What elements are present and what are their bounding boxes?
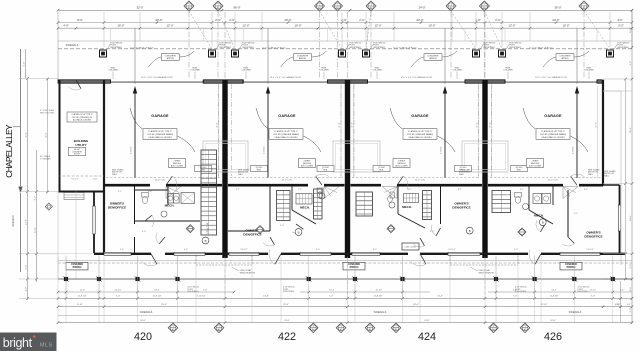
unit 426 toilet bbox=[515, 193, 522, 198]
svg-text:6'-2": 6'-2" bbox=[373, 249, 377, 251]
svg-text:22'-10": 22'-10" bbox=[541, 304, 548, 306]
svg-text:7'-0": 7'-0" bbox=[203, 290, 207, 292]
svg-text:2'-0": 2'-0" bbox=[617, 304, 621, 306]
unit 426 stairs bbox=[492, 191, 511, 213]
unit 422 circled letter bbox=[295, 229, 302, 236]
svg-text:6'-0": 6'-0" bbox=[630, 61, 632, 66]
svg-text:20'-0": 20'-0" bbox=[552, 18, 559, 22]
left dim top drop bbox=[25, 49, 27, 78]
unit 422 stairs bbox=[277, 191, 291, 221]
unit 420 washer dryer bbox=[168, 194, 174, 204]
svg-text:12'-10": 12'-10" bbox=[590, 290, 597, 292]
winder stairs at back doors bbox=[166, 187, 181, 199]
svg-text:36'-0": 36'-0" bbox=[554, 6, 561, 10]
porch small dim row bbox=[58, 291, 234, 293]
svg-text:2'-0": 2'-0" bbox=[495, 18, 501, 22]
svg-text:GARAGE: GARAGE bbox=[411, 114, 429, 118]
svg-text:2 LAYERS OF 5/8" TYPE 'X': 2 LAYERS OF 5/8" TYPE 'X' bbox=[148, 130, 172, 133]
svg-text:(DROPPED): (DROPPED) bbox=[283, 291, 295, 293]
svg-text:2'-0": 2'-0" bbox=[359, 18, 365, 22]
svg-text:23'-4": 23'-4" bbox=[161, 304, 167, 306]
svg-text:(DROPPED): (DROPPED) bbox=[349, 47, 361, 49]
interior vertical dims near party walls bbox=[218, 86, 220, 178]
unit 420 den left wall bbox=[93, 192, 95, 254]
svg-text:2'-0": 2'-0" bbox=[229, 18, 235, 22]
svg-text:5'-0": 5'-0" bbox=[316, 249, 320, 251]
right dimension line bbox=[631, 10, 633, 322]
svg-text:37'-8": 37'-8" bbox=[477, 122, 479, 128]
svg-text:4'-0": 4'-0" bbox=[630, 287, 632, 292]
right dim line inner bbox=[625, 79, 627, 279]
svg-text:HDR.: HDR. bbox=[379, 170, 384, 172]
left porch roof dashed line bbox=[58, 175, 104, 177]
svg-text:ON ALL WALLS & CEILING: ON ALL WALLS & CEILING bbox=[541, 136, 565, 139]
svg-text:5'-0": 5'-0" bbox=[618, 24, 624, 28]
party wall extensions below bbox=[224, 258, 226, 298]
svg-text:17R @ 7 3/4": 17R @ 7 3/4" bbox=[207, 222, 209, 234]
party wall 3 between 424 and 426 bbox=[482, 80, 487, 258]
svg-text:APRON: APRON bbox=[299, 57, 307, 60]
svg-text:GYP. BD. (STAGGER SEAMS): GYP. BD. (STAGGER SEAMS) bbox=[273, 133, 299, 136]
driveway arrows in garages bbox=[134, 29, 136, 85]
unit 422 closet grid bbox=[296, 194, 312, 205]
svg-text:12'-0" TO FACE OF BLDG.: 12'-0" TO FACE OF BLDG. bbox=[393, 46, 417, 49]
svg-text:10'-0": 10'-0" bbox=[294, 24, 301, 28]
unit 424 storage closet bbox=[402, 243, 419, 250]
svg-text:5'-3": 5'-3" bbox=[298, 189, 302, 191]
svg-text:WALL: WALL bbox=[588, 173, 593, 176]
unit 420 circled letter bbox=[202, 237, 209, 244]
svg-text:HDR.: HDR. bbox=[517, 170, 522, 172]
svg-text:424: 424 bbox=[418, 331, 436, 343]
svg-text:9'-8 1/2": 9'-8 1/2" bbox=[71, 179, 79, 181]
svg-text:12'-0" TO FACE OF BLDG.: 12'-0" TO FACE OF BLDG. bbox=[130, 46, 154, 49]
svg-text:4'-0": 4'-0" bbox=[25, 287, 27, 292]
unit 426 right wall window bbox=[618, 205, 620, 231]
svg-text:37'-8": 37'-8" bbox=[596, 122, 598, 128]
svg-text:2 LAYERS OF 5/8" TYPE 'X': 2 LAYERS OF 5/8" TYPE 'X' bbox=[408, 130, 432, 133]
unit 424 doors bbox=[436, 228, 441, 236]
unit 424 partitions bbox=[440, 185, 442, 224]
concrete apron labels bbox=[161, 54, 179, 61]
svg-text:SIDEWALK: SIDEWALK bbox=[140, 311, 153, 314]
shelf rack note boxes bbox=[169, 159, 186, 168]
svg-text:MLS: MLS bbox=[40, 342, 53, 348]
svg-text:24'-0": 24'-0" bbox=[140, 320, 146, 322]
dashed clearance line in garages bbox=[106, 177, 220, 179]
svg-text:(DROPPED): (DROPPED) bbox=[110, 47, 122, 49]
svg-text:10'-0": 10'-0" bbox=[428, 24, 435, 28]
svg-text:HDR.: HDR. bbox=[323, 170, 328, 172]
svg-text:422: 422 bbox=[278, 331, 296, 343]
porch edge line bbox=[58, 278, 632, 280]
svg-text:GYP. BD. (STAGGER SEAMS): GYP. BD. (STAGGER SEAMS) bbox=[540, 133, 566, 136]
svg-text:7'-0": 7'-0" bbox=[116, 296, 121, 298]
chapel alley road line bbox=[20, 49, 22, 186]
unit 426 right bump wall top bbox=[603, 184, 620, 186]
utility door bbox=[76, 80, 81, 89]
svg-text:GYP. BD. (STAGGER SEAMS): GYP. BD. (STAGGER SEAMS) bbox=[147, 133, 173, 136]
svg-text:9'-4": 9'-4" bbox=[120, 249, 124, 251]
svg-text:11'-8 1/2": 11'-8 1/2" bbox=[373, 296, 382, 298]
unit 420 interior partition bbox=[134, 185, 136, 224]
top dimension line 2 bbox=[58, 22, 632, 24]
utility room left wall bbox=[59, 80, 61, 192]
svg-text:WALL: WALL bbox=[112, 173, 117, 176]
svg-text:COLUMN: COLUMN bbox=[241, 70, 251, 72]
garage back wall bbox=[104, 184, 150, 187]
svg-text:2 LAYERS OF 5/8" TYPE 'X': 2 LAYERS OF 5/8" TYPE 'X' bbox=[71, 113, 93, 116]
unit 426 washer dryer bbox=[533, 194, 542, 204]
bay window dashed outlines bbox=[195, 256, 197, 266]
svg-text:(DROPPED): (DROPPED) bbox=[373, 47, 385, 49]
svg-text:GYP. BD. (STAGGER) ON: GYP. BD. (STAGGER) ON bbox=[72, 116, 93, 119]
svg-text:4'-1": 4'-1" bbox=[236, 189, 240, 191]
covered porch labels bbox=[66, 262, 88, 270]
svg-text:WALL: WALL bbox=[459, 173, 464, 176]
garage 420 left wall bbox=[103, 80, 105, 253]
svg-text:16'-0" x 8'-0" O.H. GARAGE DOO: 16'-0" x 8'-0" O.H. GARAGE DOOR bbox=[141, 76, 173, 79]
garage back wall door leaves bbox=[166, 176, 172, 185]
grid dash-dot verticals from diamonds bbox=[188, 12, 190, 80]
unit 422 partitions bbox=[269, 185, 271, 231]
garage gyp board note boxes bbox=[143, 129, 177, 140]
svg-text:APRON: APRON bbox=[561, 57, 569, 60]
svg-text:(DROPPED): (DROPPED) bbox=[617, 47, 629, 49]
svg-text:37'-8": 37'-8" bbox=[217, 122, 219, 128]
svg-text:DEN/OFFICE: DEN/OFFICE bbox=[108, 205, 126, 209]
svg-text:PORCH: PORCH bbox=[350, 266, 359, 269]
svg-text:7'-0": 7'-0" bbox=[329, 296, 334, 298]
svg-text:ON ALL WALLS & CEILING: ON ALL WALLS & CEILING bbox=[148, 136, 172, 139]
unit 426 sink bbox=[523, 204, 529, 210]
garage door head lines bbox=[111, 81, 204, 83]
svg-text:24'-0": 24'-0" bbox=[418, 6, 425, 10]
svg-text:4'-1": 4'-1" bbox=[408, 189, 412, 191]
bottom exterior wall bbox=[94, 253, 151, 255]
left dim line at 47 bbox=[47, 79, 49, 192]
bottom wall windows bbox=[104, 252, 131, 255]
svg-text:20'-0" CLR.: 20'-0" CLR. bbox=[155, 180, 166, 182]
unit 424 sink bbox=[389, 202, 395, 208]
svg-text:STOOP: STOOP bbox=[74, 154, 81, 156]
svg-text:20'-0": 20'-0" bbox=[630, 127, 632, 133]
svg-text:5'-0": 5'-0" bbox=[630, 308, 632, 313]
svg-text:bright: bright bbox=[3, 336, 33, 350]
svg-text:B: B bbox=[298, 230, 300, 234]
svg-text:AUTO CLOSER: AUTO CLOSER bbox=[301, 164, 314, 167]
svg-text:DEN/OFFICE: DEN/OFFICE bbox=[452, 205, 470, 209]
svg-text:13'-4": 13'-4" bbox=[263, 296, 269, 298]
svg-text:9'-8 1/2": 9'-8 1/2" bbox=[448, 249, 456, 251]
svg-text:24'-0": 24'-0" bbox=[284, 320, 290, 322]
svg-text:14'-0": 14'-0" bbox=[630, 215, 632, 221]
svg-text:APRON: APRON bbox=[167, 57, 175, 60]
svg-text:8'-0": 8'-0" bbox=[77, 18, 83, 22]
svg-text:20'-0" CLR.: 20'-0" CLR. bbox=[548, 180, 559, 182]
svg-text:WINDOW ABOVE: WINDOW ABOVE bbox=[479, 271, 495, 274]
unit 424 closet grid bbox=[404, 194, 419, 203]
svg-text:13'-4": 13'-4" bbox=[154, 290, 160, 292]
left porch interior lines bbox=[57, 192, 59, 280]
unit 420 sink bbox=[161, 211, 167, 217]
svg-text:16'-0" x 8'-0" O.H. GARAGE DOO: 16'-0" x 8'-0" O.H. GARAGE DOOR bbox=[270, 76, 302, 79]
svg-text:7'-0": 7'-0" bbox=[513, 296, 518, 298]
svg-text:GARAGE: GARAGE bbox=[544, 114, 562, 118]
unit 420 toilet bbox=[142, 193, 149, 198]
bottom dimension line 2 bbox=[58, 306, 632, 308]
bright MLS watermark bbox=[0, 333, 57, 351]
svg-text:MECH.: MECH. bbox=[534, 214, 544, 218]
svg-text:SEE CIVIL DWG.: SEE CIVIL DWG. bbox=[40, 112, 55, 114]
svg-text:AUTO CLOSER: AUTO CLOSER bbox=[171, 164, 184, 167]
unit 422 doors bbox=[296, 224, 303, 229]
unit 424 diamond symbol bbox=[387, 225, 395, 233]
svg-text:MECH.: MECH. bbox=[165, 204, 175, 208]
front entry doors bbox=[151, 254, 157, 264]
svg-text:11'-8 1/2": 11'-8 1/2" bbox=[152, 296, 161, 298]
svg-text:9'-8 1/2": 9'-8 1/2" bbox=[240, 249, 248, 251]
svg-text:5'-0": 5'-0" bbox=[514, 249, 518, 251]
utility room bottom wall bbox=[59, 191, 105, 193]
unit 422 diamond symbol bbox=[256, 226, 264, 234]
unit 426 right bump wall bbox=[619, 185, 621, 253]
svg-text:11'-0": 11'-0" bbox=[80, 290, 85, 292]
svg-text:5'-2": 5'-2" bbox=[118, 191, 122, 193]
svg-text:96'-0": 96'-0" bbox=[233, 6, 240, 10]
dash-dot lines flanking party walls bbox=[218, 84, 220, 176]
unit 420 interior door bbox=[145, 215, 152, 221]
svg-text:7'-0": 7'-0" bbox=[591, 296, 596, 298]
svg-text:5'-0": 5'-0" bbox=[630, 264, 632, 269]
svg-text:COLUMN: COLUMN bbox=[372, 70, 382, 72]
svg-text:COLUMN: COLUMN bbox=[503, 70, 513, 72]
utility note box bbox=[67, 112, 97, 122]
svg-text:APRON: APRON bbox=[429, 57, 437, 60]
svg-text:16'-0" x 8'-0" O.H. GARAGE DOO: 16'-0" x 8'-0" O.H. GARAGE DOOR bbox=[400, 76, 432, 79]
svg-text:8'-10": 8'-10" bbox=[77, 304, 83, 306]
left extension lines bbox=[19, 77, 58, 79]
svg-text:DEN/OFFICE: DEN/OFFICE bbox=[584, 234, 602, 238]
svg-text:37'-8": 37'-8" bbox=[339, 122, 341, 128]
right extension lines bbox=[603, 78, 632, 80]
svg-text:24'-0": 24'-0" bbox=[550, 320, 556, 322]
svg-text:4'-0": 4'-0" bbox=[63, 24, 69, 28]
svg-text:32'-0": 32'-0" bbox=[136, 6, 143, 10]
svg-text:SIDEWALK: SIDEWALK bbox=[569, 311, 582, 314]
unit 426 diamond symbol bbox=[518, 228, 526, 236]
unit 420 bath walls bbox=[135, 189, 169, 191]
left dim vertical C bbox=[36, 150, 38, 282]
svg-text:8'-6": 8'-6" bbox=[584, 189, 588, 191]
svg-text:6'-4": 6'-4" bbox=[513, 290, 517, 292]
svg-text:2'-8 1/2": 2'-8 1/2" bbox=[441, 146, 443, 154]
svg-text:WALL: WALL bbox=[238, 173, 243, 176]
svg-text:15'-10": 15'-10" bbox=[376, 290, 383, 292]
svg-text:3'-0": 3'-0" bbox=[574, 213, 578, 215]
svg-text:20'-0": 20'-0" bbox=[284, 18, 291, 22]
roof line above (dashed) bbox=[58, 48, 632, 50]
svg-text:MECH.: MECH. bbox=[300, 206, 310, 210]
svg-text:COLUMN: COLUMN bbox=[452, 70, 462, 72]
svg-text:11'-0": 11'-0" bbox=[93, 179, 98, 181]
svg-text:16'-0" x 8'-0" O.H. GARAGE DOO: 16'-0" x 8'-0" O.H. GARAGE DOOR bbox=[535, 76, 567, 79]
svg-text:GARAGE: GARAGE bbox=[151, 114, 169, 118]
svg-text:21'-0": 21'-0" bbox=[45, 132, 47, 138]
svg-text:AUTO CLOSER: AUTO CLOSER bbox=[395, 164, 408, 167]
top dimension line 1 (96'-0") bbox=[58, 9, 632, 11]
svg-text:COLUMN: COLUMN bbox=[190, 70, 200, 72]
svg-text:12'-0": 12'-0" bbox=[166, 24, 173, 28]
svg-text:ALL WALLS & CEILING: ALL WALLS & CEILING bbox=[73, 119, 92, 122]
concrete stoop note box bbox=[69, 147, 86, 156]
wood post labels bbox=[106, 45, 110, 52]
svg-text:7'-10 1/2": 7'-10 1/2" bbox=[196, 296, 205, 298]
svg-text:WINDOW ABOVE: WINDOW ABOVE bbox=[240, 271, 256, 274]
svg-text:(DROPPED): (DROPPED) bbox=[509, 47, 521, 49]
svg-text:4'-2": 4'-2" bbox=[184, 249, 188, 251]
unit 420 diamond symbol bbox=[186, 225, 194, 233]
svg-text:4'-9": 4'-9" bbox=[142, 231, 146, 233]
svg-text:TO REMAIN: TO REMAIN bbox=[40, 157, 51, 160]
bottom dimension line 1 bbox=[58, 297, 632, 299]
svg-text:5'-0": 5'-0" bbox=[25, 265, 27, 270]
svg-text:3'-0": 3'-0" bbox=[280, 225, 284, 227]
svg-text:12'-0": 12'-0" bbox=[34, 227, 36, 233]
svg-text:20'-0" CLR.: 20'-0" CLR. bbox=[282, 180, 293, 182]
svg-text:CHAPEL ALLEY: CHAPEL ALLEY bbox=[4, 124, 14, 178]
unit 426 partitions bbox=[528, 185, 530, 210]
svg-text:B: B bbox=[542, 221, 544, 225]
unit 420 stairs bbox=[201, 150, 217, 235]
svg-text:2'-0": 2'-0" bbox=[627, 304, 631, 306]
svg-text:2 LAYERS OF 5/8" TYPE 'X': 2 LAYERS OF 5/8" TYPE 'X' bbox=[274, 130, 298, 133]
bottom extension lines bbox=[57, 257, 59, 323]
top sidewalk edge line bbox=[58, 40, 632, 42]
svg-text:37'-8": 37'-8" bbox=[352, 122, 354, 128]
svg-text:13'-4": 13'-4" bbox=[437, 296, 443, 298]
svg-text:15'-4": 15'-4" bbox=[329, 290, 335, 292]
party wall 2 between 422 and 424 bbox=[345, 80, 350, 258]
svg-text:11'-8 1/2": 11'-8 1/2" bbox=[77, 296, 86, 298]
soffit rectangles straddling party walls bbox=[203, 141, 248, 172]
garage door jamb extension lines bbox=[110, 29, 112, 41]
svg-text:GYP. BD. (STAGGER SEAMS): GYP. BD. (STAGGER SEAMS) bbox=[407, 133, 433, 136]
svg-text:2'-8 1/2": 2'-8 1/2" bbox=[264, 146, 266, 154]
svg-text:ON ALL WALLS & CEILING: ON ALL WALLS & CEILING bbox=[274, 136, 298, 139]
svg-text:5'-0": 5'-0" bbox=[34, 196, 36, 201]
svg-text:12'-0": 12'-0" bbox=[630, 27, 632, 33]
svg-text:426: 426 bbox=[544, 331, 562, 343]
svg-text:12'-0": 12'-0" bbox=[508, 24, 515, 28]
svg-text:20'-0" CLR.: 20'-0" CLR. bbox=[415, 180, 426, 182]
unit 420 den window left bbox=[93, 206, 95, 234]
svg-text:8'-1": 8'-1" bbox=[458, 189, 462, 191]
svg-text:12'-0": 12'-0" bbox=[374, 24, 381, 28]
svg-text:3'-0": 3'-0" bbox=[430, 231, 434, 233]
svg-text:HDR.: HDR. bbox=[201, 170, 206, 172]
svg-text:SIDEWALK: SIDEWALK bbox=[374, 311, 387, 314]
svg-text:9'-8 1/2": 9'-8 1/2" bbox=[586, 249, 594, 251]
svg-text:SIDEWALK: SIDEWALK bbox=[12, 215, 15, 227]
porch posts bbox=[64, 277, 68, 281]
svg-text:COAT CLOSET: COAT CLOSET bbox=[405, 246, 417, 249]
garage 426 right wall bbox=[602, 80, 604, 185]
svg-text:12'-0" TO FACE OF BLDG.: 12'-0" TO FACE OF BLDG. bbox=[262, 46, 286, 49]
sidewalk band bbox=[58, 314, 632, 316]
wood posts along roof line bbox=[100, 50, 107, 57]
top grid diamonds bbox=[184, 1, 194, 11]
bottom grid diamonds bbox=[168, 323, 178, 333]
unit 422 sink bbox=[319, 193, 325, 199]
svg-text:UTILITY: UTILITY bbox=[75, 143, 86, 147]
right eave line bbox=[620, 91, 622, 265]
svg-text:3'-6": 3'-6" bbox=[148, 191, 152, 193]
svg-text:21'-0": 21'-0" bbox=[25, 132, 27, 138]
garage front wall with door openings bbox=[58, 80, 111, 83]
unit 422 toilet bbox=[317, 188, 323, 193]
svg-text:2'-8 1/2": 2'-8 1/2" bbox=[131, 146, 133, 154]
header note boxes by party walls bbox=[195, 166, 212, 172]
unit 424 stairs flight 1 bbox=[356, 192, 373, 216]
svg-text:2'-8 1/2": 2'-8 1/2" bbox=[573, 146, 575, 154]
svg-text:COLUMN: COLUMN bbox=[319, 70, 329, 72]
svg-text:23'-8": 23'-8" bbox=[283, 304, 289, 306]
porch roof line bbox=[58, 260, 632, 262]
porch roof dashed line bbox=[58, 262, 632, 264]
svg-text:HDR.: HDR. bbox=[257, 170, 262, 172]
svg-text:SIDEWALK: SIDEWALK bbox=[66, 44, 79, 47]
svg-text:COLUMN: COLUMN bbox=[108, 70, 118, 72]
bottom right vertical dim bbox=[620, 281, 622, 323]
diamond leader lines bbox=[189, 11, 212, 49]
svg-text:COLUMN: COLUMN bbox=[584, 70, 594, 72]
svg-text:WALL: WALL bbox=[604, 174, 609, 177]
party wall centerlines above building bbox=[224, 12, 226, 79]
svg-text:20'-0": 20'-0" bbox=[416, 18, 423, 22]
svg-text:MECH.: MECH. bbox=[402, 205, 412, 209]
left porch corner post bbox=[45, 203, 52, 210]
svg-text:B: B bbox=[205, 239, 207, 243]
svg-text:420: 420 bbox=[134, 331, 152, 343]
unit 424 toilet bbox=[390, 192, 395, 198]
bottom dimension line 3 bbox=[58, 322, 632, 324]
svg-text:4'-0": 4'-0" bbox=[617, 18, 623, 22]
svg-text:12'-4": 12'-4" bbox=[25, 219, 27, 225]
party wall 1 between 420 and 422 bbox=[222, 80, 227, 258]
svg-text:13'-2": 13'-2" bbox=[551, 290, 557, 292]
svg-text:12'-0": 12'-0" bbox=[242, 24, 249, 28]
svg-text:26'-6": 26'-6" bbox=[413, 304, 419, 306]
svg-text:ON ALL WALLS & CEILING: ON ALL WALLS & CEILING bbox=[408, 136, 432, 139]
porch post vertical extensions bbox=[65, 256, 67, 277]
svg-text:GARAGE: GARAGE bbox=[278, 114, 296, 118]
unit 426 circled letter bbox=[539, 219, 546, 226]
svg-text:3'-1": 3'-1" bbox=[520, 189, 524, 191]
svg-text:10'-0": 10'-0" bbox=[562, 24, 569, 28]
left dim vertical B bbox=[27, 78, 29, 300]
unit 424 circled letter bbox=[466, 227, 473, 234]
svg-text:(DROPPED): (DROPPED) bbox=[242, 47, 254, 49]
unit 424 stairs flight 2 bbox=[423, 191, 432, 220]
svg-text:DEN/OFFICE: DEN/OFFICE bbox=[243, 232, 261, 236]
svg-text:B: B bbox=[469, 229, 471, 233]
svg-text:12'-0" TO FACE OF BLDG.: 12'-0" TO FACE OF BLDG. bbox=[529, 46, 553, 49]
svg-text:AUTO CLOSER: AUTO CLOSER bbox=[529, 164, 542, 167]
svg-text:5'-0": 5'-0" bbox=[23, 62, 25, 67]
svg-text:16'-0": 16'-0" bbox=[117, 24, 124, 28]
chapel alley leader bbox=[13, 126, 20, 128]
